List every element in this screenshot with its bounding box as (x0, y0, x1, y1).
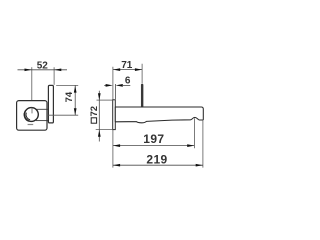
dimension 6 left outside arrow (106, 84, 113, 87)
dimension 52 right arrow (54, 68, 61, 71)
dimension 6 right tail line (122, 84, 130, 86)
svg-text:71: 71 (121, 60, 133, 71)
joystick stick (side view) (141, 84, 143, 107)
dimension 74 bottom arrow (74, 108, 77, 115)
svg-text:197: 197 (143, 132, 164, 146)
dimension 219 line (113, 164, 203, 166)
dimension 71 left arrow (113, 68, 120, 71)
dimension square-72: small square symbol (91, 118, 96, 123)
dimension 197 right arrow (187, 144, 194, 147)
inner arc of spout mouth (lower-left crescent) (26, 113, 30, 120)
extension line front face of plate (6 dim) (115, 84, 117, 99)
dimension 6 left tail line (104, 84, 106, 86)
spout tube edges (front view) (36, 108, 49, 110)
dimension 52 line (18, 69, 68, 71)
dimension 71 right arrow (135, 68, 142, 71)
dimension 6 right outside arrow (116, 84, 123, 87)
dimension 219 right arrow (196, 164, 203, 167)
dimension 197 line (113, 145, 194, 147)
svg-text:6: 6 (125, 75, 131, 86)
dimension 74 line (74, 85, 76, 115)
extension line at spout tip (219 dim) (202, 121, 204, 168)
dimension 52 left arrow (25, 68, 32, 71)
svg-text:72: 72 (89, 106, 100, 117)
extension line above joystick (141, 64, 143, 83)
outer thickening arc lower-left (24, 110, 29, 121)
svg-text:219: 219 (146, 153, 167, 167)
wall plate (side view) (113, 100, 116, 130)
square escutcheon plate (17, 101, 47, 131)
joystick handle (front view, narrow rect) (48, 85, 53, 123)
dimension 72 top arrow (outside, pointing down) (98, 93, 101, 100)
centerline stroke inside circle (31, 108, 33, 114)
extension line bottom of 74 dim (spout axis) (48, 114, 78, 116)
dimension 74 top arrow (74, 86, 77, 93)
extension line top of 74 dim (from handle top) (56, 84, 78, 86)
extension line bottom of 72 dim (96, 129, 113, 131)
extension line right of 52 dim (53, 67, 55, 85)
dimension 72 bottom arrow (outside, pointing up) (98, 130, 101, 137)
extension line at aerator (197 dim) (193, 118, 195, 148)
svg-text:52: 52 (37, 60, 49, 71)
dimension 197 left arrow (113, 144, 120, 147)
extension line / centerline of knob (52 dim left ext) (31, 67, 33, 113)
long extension line at wall face (112, 67, 114, 168)
dimension 71 line (113, 69, 142, 71)
dimension 72 line (98, 91, 100, 142)
extension line top of 72 dim (97, 99, 113, 101)
logo dash on plate (28, 124, 34, 125)
spout end circle (25, 108, 39, 122)
dimension 219 left arrow (113, 164, 120, 167)
svg-text:74: 74 (64, 91, 75, 102)
spout body (side view) (115, 107, 203, 123)
